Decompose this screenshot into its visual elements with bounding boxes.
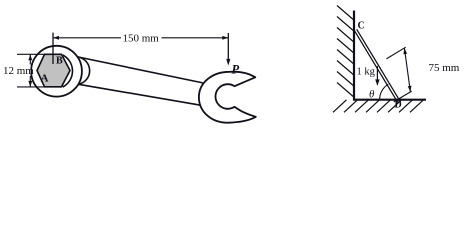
floor hatching <box>333 100 424 113</box>
rod CD line 1 <box>357 29 401 102</box>
svg-text:75 mm: 75 mm <box>429 62 460 74</box>
P arrowhead <box>226 59 230 66</box>
svg-text:P: P <box>232 63 240 77</box>
wall hatching <box>337 6 354 98</box>
75mm upper extension tick <box>386 47 405 59</box>
75mm dimension line <box>404 48 410 92</box>
wrench head inner hole arc <box>63 55 73 87</box>
75mm lower extension tick <box>394 91 412 102</box>
svg-text:12 mm: 12 mm <box>3 65 34 77</box>
150mm left arrow <box>53 36 59 40</box>
12mm arrow down <box>28 81 32 87</box>
angle arc <box>380 84 389 99</box>
75mm top arrow <box>403 48 407 54</box>
weight arrow shaft <box>376 66 378 81</box>
12mm top extension line <box>17 53 47 55</box>
weight arrowhead <box>375 79 379 86</box>
svg-text:D: D <box>395 100 402 111</box>
12mm dimension line upper part <box>29 55 31 65</box>
12mm arrow up <box>28 54 32 60</box>
svg-text:150 mm: 150 mm <box>123 33 160 45</box>
svg-text:θ: θ <box>369 89 375 101</box>
right jaw (open-end) <box>199 72 256 123</box>
wall line <box>353 11 355 100</box>
handle upper line <box>78 57 203 83</box>
svg-text:1 kg: 1 kg <box>357 67 376 78</box>
svg-text:A: A <box>41 72 49 84</box>
12mm dimension line lower part <box>29 76 31 87</box>
handle cap arc at head <box>78 57 90 84</box>
P force line <box>227 33 229 61</box>
label 12 mm <box>3 65 31 76</box>
75mm bottom arrow <box>408 86 412 92</box>
svg-text:B: B <box>56 55 63 66</box>
150mm right arrow <box>222 36 228 40</box>
150mm left extension line into hex <box>52 33 54 64</box>
150mm dimension line left segment <box>53 37 121 39</box>
hex bolt <box>37 54 70 87</box>
handle lower line <box>79 84 201 105</box>
150mm dimension line right segment <box>162 37 229 39</box>
wrench head outer circle <box>31 46 82 97</box>
rod CD line 2 <box>355 31 399 104</box>
svg-text:C: C <box>358 20 365 31</box>
floor line <box>353 99 426 101</box>
12mm bottom extension line <box>17 86 47 88</box>
